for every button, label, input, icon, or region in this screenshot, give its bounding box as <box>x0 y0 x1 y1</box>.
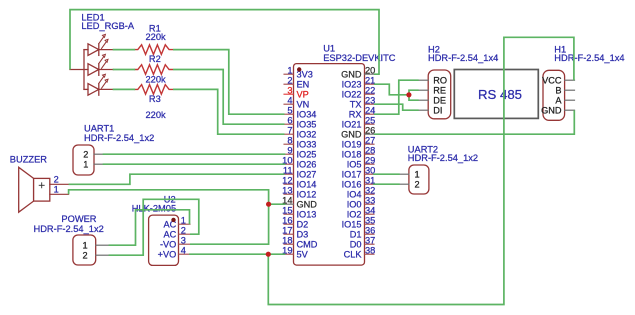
svg-text:IO22: IO22 <box>342 90 362 100</box>
svg-text:5V: 5V <box>297 250 309 260</box>
svg-text:1: 1 <box>287 66 292 76</box>
svg-text:R2: R2 <box>149 54 161 64</box>
svg-text:38: 38 <box>365 246 375 256</box>
svg-text:DI: DI <box>433 106 442 116</box>
svg-text:HDR-F-2.54_1x2: HDR-F-2.54_1x2 <box>84 133 154 143</box>
svg-text:220k: 220k <box>146 32 167 42</box>
svg-text:IO25: IO25 <box>297 150 317 160</box>
svg-text:BUZZER: BUZZER <box>10 154 47 164</box>
svg-text:GND: GND <box>341 130 362 140</box>
svg-text:13: 13 <box>282 186 292 196</box>
svg-text:DE: DE <box>433 96 446 106</box>
svg-text:220k: 220k <box>146 110 167 120</box>
svg-text:GND: GND <box>541 106 562 116</box>
svg-text:IO34: IO34 <box>297 110 317 120</box>
svg-text:4: 4 <box>287 96 292 106</box>
svg-text:25: 25 <box>365 116 375 126</box>
svg-text:33: 33 <box>365 196 375 206</box>
svg-text:1: 1 <box>54 185 59 195</box>
svg-text:GND: GND <box>297 200 318 210</box>
svg-text:1: 1 <box>181 216 186 226</box>
svg-text:16: 16 <box>282 216 292 226</box>
svg-text:23: 23 <box>365 96 375 106</box>
svg-text:POWER: POWER <box>61 214 96 224</box>
svg-text:8: 8 <box>287 136 292 146</box>
svg-text:18: 18 <box>282 236 292 246</box>
svg-text:D0: D0 <box>350 240 362 250</box>
svg-text:D2: D2 <box>297 220 309 230</box>
svg-text:IO26: IO26 <box>297 160 317 170</box>
svg-text:220k: 220k <box>146 74 167 84</box>
svg-text:IO27: IO27 <box>297 170 317 180</box>
svg-text:IO17: IO17 <box>342 170 362 180</box>
svg-text:R3: R3 <box>149 94 161 104</box>
svg-text:36: 36 <box>365 226 375 236</box>
svg-text:VP: VP <box>297 90 309 100</box>
svg-text:EN: EN <box>297 80 310 90</box>
svg-text:HDR-F-2.54_1x4: HDR-F-2.54_1x4 <box>428 53 498 63</box>
svg-text:12: 12 <box>282 176 292 186</box>
svg-text:26: 26 <box>365 126 375 136</box>
svg-text:2: 2 <box>287 76 292 86</box>
svg-text:IO4: IO4 <box>347 190 362 200</box>
svg-text:IO5: IO5 <box>347 160 362 170</box>
svg-text:-VO: -VO <box>160 240 176 250</box>
svg-text:7: 7 <box>287 126 292 136</box>
svg-text:3: 3 <box>181 236 186 246</box>
svg-text:IO32: IO32 <box>297 130 317 140</box>
svg-text:24: 24 <box>365 106 375 116</box>
svg-text:IO15: IO15 <box>342 220 362 230</box>
svg-text:GND: GND <box>341 70 362 80</box>
svg-text:IO18: IO18 <box>342 150 362 160</box>
svg-text:RX: RX <box>349 110 362 120</box>
svg-text:IO35: IO35 <box>297 120 317 130</box>
svg-text:CLK: CLK <box>344 250 363 260</box>
svg-text:37: 37 <box>365 236 375 246</box>
svg-text:34: 34 <box>365 206 375 216</box>
svg-text:HDR-F-2.54_1x4: HDR-F-2.54_1x4 <box>554 53 624 63</box>
svg-text:6: 6 <box>287 116 292 126</box>
svg-text:35: 35 <box>365 216 375 226</box>
svg-text:IO19: IO19 <box>342 140 362 150</box>
svg-text:IO12: IO12 <box>297 190 317 200</box>
svg-text:HLK-2M05: HLK-2M05 <box>132 204 176 214</box>
svg-text:IO0: IO0 <box>347 200 362 210</box>
svg-text:5: 5 <box>287 106 292 116</box>
svg-text:TX: TX <box>350 100 362 110</box>
svg-text:CMD: CMD <box>297 240 318 250</box>
svg-text:2: 2 <box>82 251 87 261</box>
svg-text:VCC: VCC <box>542 76 562 86</box>
svg-text:29: 29 <box>365 156 375 166</box>
svg-text:D3: D3 <box>297 230 309 240</box>
svg-text:1: 1 <box>82 241 87 251</box>
svg-text:15: 15 <box>282 206 292 216</box>
svg-text:28: 28 <box>365 146 375 156</box>
svg-text:HDR-F-2.54_1x2: HDR-F-2.54_1x2 <box>408 153 478 163</box>
svg-text:VN: VN <box>297 100 310 110</box>
svg-text:IO2: IO2 <box>347 210 362 220</box>
svg-text:IO14: IO14 <box>297 180 317 190</box>
svg-text:1: 1 <box>83 160 88 170</box>
svg-text:HDR-F-2.54_1x2: HDR-F-2.54_1x2 <box>34 224 104 234</box>
svg-text:AC: AC <box>164 230 177 240</box>
svg-text:IO21: IO21 <box>342 120 362 130</box>
svg-text:A: A <box>555 96 562 106</box>
svg-text:LED_RGB-A: LED_RGB-A <box>81 21 134 31</box>
svg-text:B: B <box>555 86 561 96</box>
svg-text:2: 2 <box>181 226 186 236</box>
svg-text:RE: RE <box>433 86 446 96</box>
svg-text:21: 21 <box>365 76 375 86</box>
svg-text:D1: D1 <box>350 230 362 240</box>
svg-text:ESP32-DEVKITC: ESP32-DEVKITC <box>323 53 396 63</box>
svg-text:9: 9 <box>287 146 292 156</box>
svg-text:IO16: IO16 <box>342 180 362 190</box>
svg-text:+VO: +VO <box>158 250 177 260</box>
svg-text:32: 32 <box>365 186 375 196</box>
svg-text:IO13: IO13 <box>297 210 317 220</box>
svg-text:2: 2 <box>54 175 59 185</box>
svg-text:20: 20 <box>365 66 375 76</box>
svg-text:2: 2 <box>414 180 419 190</box>
svg-text:RS 485: RS 485 <box>478 87 522 102</box>
svg-text:IO23: IO23 <box>342 80 362 90</box>
svg-text:RO: RO <box>433 76 447 86</box>
svg-text:IO33: IO33 <box>297 140 317 150</box>
svg-text:4: 4 <box>181 246 186 256</box>
svg-text:22: 22 <box>365 86 375 96</box>
svg-text:27: 27 <box>365 136 375 146</box>
svg-text:17: 17 <box>282 226 292 236</box>
svg-text:2: 2 <box>83 150 88 160</box>
svg-text:1: 1 <box>414 170 419 180</box>
svg-text:3: 3 <box>287 86 292 96</box>
